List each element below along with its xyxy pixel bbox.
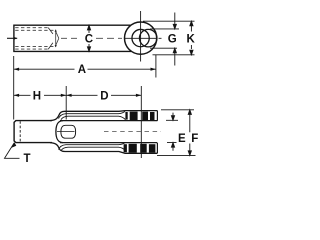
top view: horizontal centerline [7,37,17,39]
side view: chamfer hidden vertical [19,121,21,142]
side view: horizontal centerline [57,131,75,133]
side view: prong top inner line 1 [59,111,126,118]
top view: hidden drill minor lines [15,30,55,46]
svg-text:T: T [24,153,31,165]
side view: hole vertical centerline / D extension [140,86,142,158]
svg-text:G: G [168,34,177,46]
svg-text:A: A [78,64,86,76]
side view: bottom prong inner line 2 [61,147,126,151]
svg-text:C: C [85,34,93,46]
side view: bottom prong inner line 1 [59,143,126,150]
side view: top flare and prong top edge [50,111,157,121]
dim E arrows [171,113,174,151]
boss vertical centerline [140,11,142,62]
side view: shank outline with chamfered left corners [14,121,52,143]
side view: hole break-through stadium [61,125,76,138]
boss outer circle [125,22,157,54]
side view: bottom flare and prong bottom edge [50,143,157,154]
side view: bottom prong hole blocks [124,144,156,153]
top view: drill point vertical and cone [56,30,59,47]
svg-text:E: E [178,133,186,145]
side view: top prong hole blocks [125,112,154,121]
side view: slot top line [60,120,157,122]
side view: prong right end edges [156,111,158,154]
dim F arrows [188,110,191,156]
dim A extension left [13,56,15,120]
side view: slot end radius [56,121,63,143]
dim H line [14,94,31,96]
dim E extension stubs [166,120,178,142]
dim A line [14,68,75,70]
dim D line [66,94,97,96]
dim K extension lines [143,21,195,55]
dim G arrows [173,13,176,66]
offset circle (hole break-through) [139,29,157,47]
dim T leader [5,143,20,158]
dim H/D shared extension [65,86,67,120]
dim G extension lines [150,29,179,48]
hole inner circle [132,29,149,46]
dim K arrows [190,21,193,55]
svg-text:H: H [33,91,41,103]
side view: prong top inner line 2 [61,116,126,120]
side view: slot bottom line [60,142,157,144]
top view: thread end chamfer cone [48,28,53,50]
dim C arrows [87,25,90,51]
dim A extension right [155,55,157,78]
top view: body outline [14,25,131,51]
svg-text:K: K [187,33,196,45]
top view: hidden thread major lines [15,28,48,49]
svg-text:D: D [100,91,108,103]
svg-text:F: F [191,133,198,145]
dim F extension lines [157,110,196,156]
